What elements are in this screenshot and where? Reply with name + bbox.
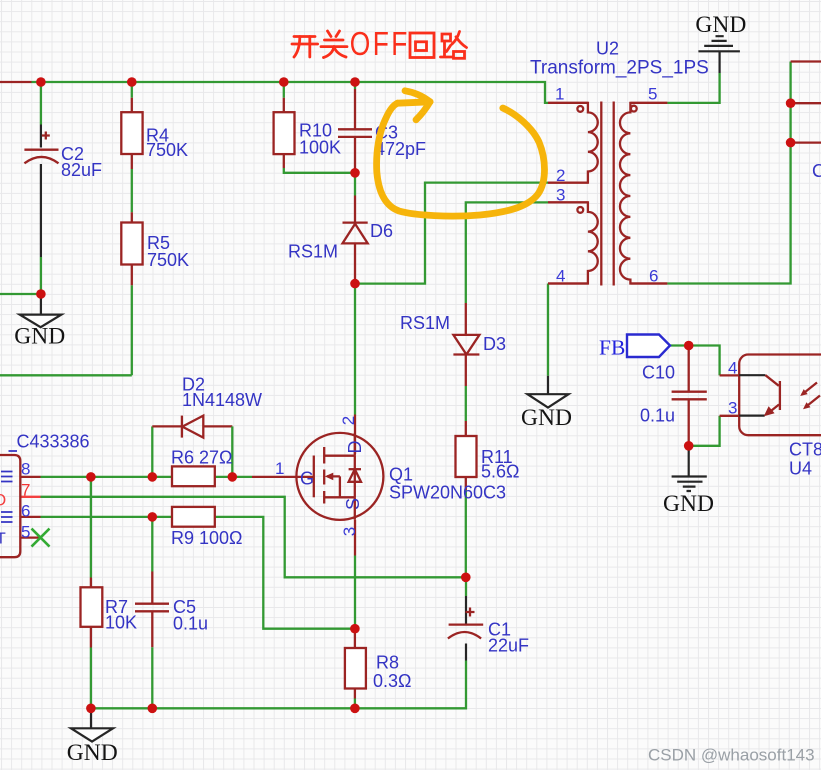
svg-text:82uF: 82uF xyxy=(61,160,102,180)
svg-text:T: T xyxy=(0,531,6,548)
svg-text:GND: GND xyxy=(663,491,714,517)
svg-text:1N4148W: 1N4148W xyxy=(182,390,262,410)
svg-text:R6 27Ω: R6 27Ω xyxy=(171,448,233,468)
svg-text:0.3Ω: 0.3Ω xyxy=(373,671,411,691)
svg-text:5: 5 xyxy=(21,522,30,541)
svg-text:1: 1 xyxy=(555,84,564,103)
svg-text:7: 7 xyxy=(21,480,30,499)
svg-text:S: S xyxy=(343,498,363,510)
svg-text:4: 4 xyxy=(556,267,565,286)
svg-text:GND: GND xyxy=(695,12,746,38)
svg-text:6: 6 xyxy=(649,267,658,286)
svg-text:472pF: 472pF xyxy=(375,139,426,159)
svg-text:OFF: OFF xyxy=(350,26,408,62)
svg-text:5: 5 xyxy=(648,84,657,103)
svg-text:C10: C10 xyxy=(642,363,675,383)
svg-text:1: 1 xyxy=(275,459,284,478)
svg-text:3: 3 xyxy=(340,527,359,536)
svg-text:0.1u: 0.1u xyxy=(173,614,208,634)
svg-text:3: 3 xyxy=(728,398,737,417)
svg-text:FB: FB xyxy=(599,336,625,360)
svg-text:R9 100Ω: R9 100Ω xyxy=(171,528,243,548)
svg-text:4: 4 xyxy=(728,358,737,377)
svg-text:Q1: Q1 xyxy=(389,465,413,485)
svg-text:GND: GND xyxy=(14,323,65,349)
svg-text:GND: GND xyxy=(67,740,118,766)
svg-text:750K: 750K xyxy=(147,250,189,270)
svg-text:2: 2 xyxy=(339,416,358,425)
svg-text:D: D xyxy=(345,441,365,454)
svg-text:Transform_2PS_1PS: Transform_2PS_1PS xyxy=(530,58,709,79)
svg-text:C: C xyxy=(812,161,821,181)
svg-text:22uF: 22uF xyxy=(488,636,529,656)
svg-text:O: O xyxy=(0,491,6,510)
svg-text:D3: D3 xyxy=(483,334,506,354)
svg-text:CT817: CT817 xyxy=(789,440,821,460)
svg-text:GND: GND xyxy=(521,405,572,431)
svg-text:U4: U4 xyxy=(789,459,812,479)
svg-text:750K: 750K xyxy=(146,140,188,160)
svg-text:8: 8 xyxy=(21,459,30,478)
svg-text:RS1M: RS1M xyxy=(400,313,450,333)
svg-text:RS1M: RS1M xyxy=(288,242,338,262)
svg-text:0.1u: 0.1u xyxy=(640,406,675,426)
svg-text:C433386: C433386 xyxy=(17,432,90,452)
svg-text:6: 6 xyxy=(21,501,30,520)
svg-text:100K: 100K xyxy=(299,138,341,158)
svg-text:3: 3 xyxy=(556,186,565,205)
svg-text:U2: U2 xyxy=(596,39,619,59)
svg-text:CSDN @whaosoft143: CSDN @whaosoft143 xyxy=(648,746,815,765)
svg-text:10K: 10K xyxy=(105,613,137,633)
svg-text:SPW20N60C3: SPW20N60C3 xyxy=(389,483,506,503)
svg-text:G: G xyxy=(300,469,314,489)
svg-text:2: 2 xyxy=(556,166,565,185)
svg-text:R8: R8 xyxy=(376,653,399,673)
svg-text:D6: D6 xyxy=(370,221,393,241)
svg-text:5.6Ω: 5.6Ω xyxy=(481,462,519,482)
